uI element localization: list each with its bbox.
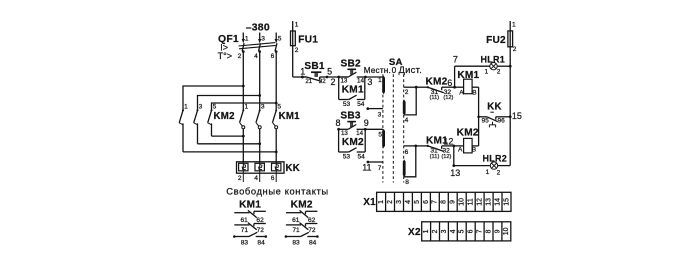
svg-text:2: 2 [238, 53, 242, 60]
svg-text:KK: KK [286, 163, 301, 174]
wire node 11 SA pin 7 stub [362, 161, 383, 173]
contact KM1 31-32 interlock [416, 135, 454, 160]
label Svobodnye kontakty [226, 186, 328, 197]
svg-text:A: A [459, 89, 464, 96]
svg-text:12: 12 [443, 136, 453, 146]
coil KM2 [454, 128, 479, 154]
wire feed KM2 pole 2 [198, 96, 260, 111]
selector switch SA [364, 57, 422, 183]
svg-text:2: 2 [330, 77, 335, 87]
lamp HLR2 [454, 154, 510, 177]
svg-text:14: 14 [357, 78, 364, 85]
svg-text:15: 15 [503, 198, 510, 206]
svg-text:6: 6 [271, 175, 275, 182]
svg-text:96: 96 [498, 118, 506, 125]
svg-text:(12): (12) [443, 95, 453, 101]
svg-text:71: 71 [241, 227, 249, 234]
wire feed KM2 pole 1 [183, 86, 243, 110]
svg-text:9: 9 [450, 200, 457, 204]
svg-text:2: 2 [238, 175, 242, 182]
pushbutton SB3 [335, 111, 368, 137]
svg-text:(11): (11) [429, 95, 439, 101]
svg-text:3: 3 [261, 35, 265, 42]
svg-text:1: 1 [486, 169, 490, 176]
svg-text:1: 1 [484, 69, 488, 76]
terminal block X2 [408, 222, 511, 241]
svg-text:11: 11 [468, 198, 475, 205]
svg-text:5: 5 [459, 229, 466, 233]
svg-text:1: 1 [244, 103, 248, 110]
svg-text:2: 2 [387, 200, 394, 204]
wire phase A from QF1 to KM1 pole 1 [242, 52, 245, 110]
contactor KM1 main contacts [240, 103, 301, 161]
svg-text:4: 4 [450, 229, 457, 233]
svg-text:–380: –380 [246, 23, 270, 34]
svg-text:4: 4 [254, 175, 258, 182]
wire node 3 to SA pin 1 [365, 77, 383, 87]
wire node 13 [450, 146, 460, 178]
svg-text:2: 2 [513, 46, 517, 53]
svg-text:Свободные контакты: Свободные контакты [226, 186, 328, 197]
svg-text:13: 13 [486, 198, 493, 206]
wire node 9 to SA pin 5 [365, 129, 383, 138]
wire merge KM2 pole2 to KM1 pole2 [198, 142, 262, 145]
svg-text:HLR2: HLR2 [483, 154, 508, 164]
svg-text:83: 83 [292, 239, 300, 246]
svg-text:1: 1 [423, 229, 430, 233]
label -380 supply [246, 23, 270, 34]
svg-text:53: 53 [343, 101, 351, 108]
svg-text:1: 1 [512, 22, 516, 29]
svg-text:1: 1 [295, 22, 299, 29]
svg-text:FU1: FU1 [298, 34, 318, 45]
svg-text:12: 12 [477, 198, 484, 206]
svg-text:SB2: SB2 [341, 58, 362, 69]
svg-text:3: 3 [441, 229, 448, 233]
svg-text:7: 7 [432, 200, 439, 204]
svg-text:Местн.: Местн. [364, 66, 391, 75]
svg-text:5: 5 [327, 66, 332, 76]
svg-text:2: 2 [432, 229, 439, 233]
wire SA pin 3 stub [366, 107, 383, 118]
wire merge KM2 pole3 to KM1 pole1 [212, 135, 245, 138]
svg-text:X1: X1 [363, 197, 376, 208]
thermal relay KK heaters [237, 162, 301, 174]
svg-text:21: 21 [305, 78, 312, 85]
svg-text:1: 1 [378, 200, 385, 204]
svg-text:6: 6 [423, 200, 430, 204]
svg-text:2: 2 [497, 170, 501, 177]
svg-text:54: 54 [358, 153, 366, 160]
svg-text:FU2: FU2 [486, 35, 506, 46]
svg-text:HLR1: HLR1 [481, 54, 506, 64]
svg-text:2: 2 [497, 69, 501, 76]
svg-text:0: 0 [392, 66, 397, 75]
svg-text:6: 6 [405, 149, 409, 156]
svg-text:10: 10 [503, 227, 510, 235]
svg-text:83: 83 [241, 239, 249, 246]
svg-text:KM2: KM2 [425, 77, 447, 88]
wire SA pins 2-4 to riser [404, 86, 418, 124]
svg-text:6: 6 [468, 229, 475, 233]
svg-text:A: A [458, 146, 463, 153]
wire node 15 right rail [509, 50, 522, 166]
svg-text:62: 62 [308, 217, 316, 224]
svg-text:KM1: KM1 [239, 199, 261, 210]
svg-text:61: 61 [241, 217, 249, 224]
svg-text:KM2: KM2 [291, 199, 313, 210]
svg-text:5: 5 [414, 200, 421, 204]
svg-text:22: 22 [319, 78, 326, 85]
svg-text:KM1: KM1 [457, 70, 479, 81]
wire coil KM1 B to KK [478, 87, 480, 117]
terminal block X1 [363, 192, 511, 211]
svg-text:53: 53 [343, 153, 351, 160]
wire node 5 / node 2 [327, 66, 348, 86]
svg-text:KM1: KM1 [279, 111, 301, 122]
svg-text:72: 72 [308, 227, 316, 234]
thermal contact KK 95-96 [477, 101, 510, 127]
svg-text:4: 4 [405, 200, 412, 204]
svg-text:15: 15 [512, 111, 522, 121]
svg-text:(11): (11) [430, 154, 440, 160]
svg-text:5: 5 [213, 103, 217, 110]
wire feed KM2 pole 3 [212, 103, 277, 110]
svg-text:9: 9 [364, 118, 369, 128]
svg-text:8: 8 [441, 200, 448, 204]
svg-text:5: 5 [277, 103, 281, 110]
svg-text:10: 10 [459, 198, 466, 206]
svg-text:1: 1 [245, 35, 249, 42]
svg-text:KM1: KM1 [342, 85, 364, 96]
svg-text:14: 14 [495, 198, 502, 206]
contact KM2 31-32 interlock [416, 77, 454, 102]
svg-text:84: 84 [257, 239, 265, 246]
svg-text:B: B [472, 89, 477, 96]
svg-text:1: 1 [184, 103, 188, 110]
svg-text:2: 2 [295, 47, 299, 54]
svg-text:54: 54 [357, 101, 365, 108]
svg-text:71: 71 [292, 227, 300, 234]
wire phase B from QF1 to KM1 pole 2 [258, 52, 261, 110]
free contacts KM1 [233, 199, 267, 246]
svg-text:61: 61 [292, 217, 300, 224]
svg-text:1: 1 [378, 77, 382, 84]
free contacts KM2 [285, 199, 319, 246]
KK pins 2 4 6 and tail wires [238, 162, 276, 182]
svg-text:84: 84 [309, 239, 317, 246]
svg-text:3: 3 [367, 77, 372, 87]
svg-text:8: 8 [405, 179, 409, 186]
svg-text:4: 4 [254, 53, 258, 60]
svg-text:3: 3 [261, 103, 265, 110]
svg-text:KM2: KM2 [457, 128, 479, 139]
pushbutton SB1 [301, 61, 328, 85]
svg-text:6: 6 [271, 53, 275, 60]
svg-text:8: 8 [485, 229, 492, 233]
pushbutton SB2 [339, 58, 367, 84]
svg-text:SB1: SB1 [304, 61, 325, 72]
svg-text:13: 13 [450, 168, 460, 178]
svg-text:5: 5 [378, 131, 382, 138]
wire node 6 node 7 [447, 54, 458, 88]
svg-text:72: 72 [257, 227, 265, 234]
svg-text:7: 7 [453, 54, 458, 64]
svg-text:Дист.: Дист. [398, 64, 422, 75]
contact KM2 53-54 self-hold [339, 129, 366, 160]
svg-text:13: 13 [340, 78, 347, 85]
svg-text:62: 62 [256, 217, 264, 224]
svg-text:5: 5 [278, 35, 282, 42]
svg-text:KK: KK [487, 101, 502, 112]
wire node 1 [293, 67, 307, 79]
svg-text:95: 95 [482, 118, 490, 125]
svg-text:KM2: KM2 [214, 111, 235, 122]
svg-text:7: 7 [477, 229, 484, 233]
wire phase C from QF1 to KM1 pole 3 [275, 52, 278, 110]
svg-text:B: B [472, 146, 477, 153]
wire node 12 [443, 136, 455, 147]
coil KM1 [455, 70, 480, 97]
wire merge KM2 pole1 to KM1 pole3 [183, 151, 278, 154]
svg-text:2: 2 [405, 89, 409, 96]
svg-text:7: 7 [378, 165, 382, 172]
svg-text:3: 3 [396, 200, 403, 204]
svg-text:9: 9 [494, 229, 501, 233]
circuit breaker QF1 [218, 33, 282, 61]
svg-text:3: 3 [378, 112, 382, 119]
svg-text:8: 8 [335, 118, 340, 128]
svg-text:(12): (12) [441, 154, 451, 160]
contactor KM2 main contacts [179, 103, 235, 151]
wire coil KM2 B riser to KK [478, 117, 480, 146]
svg-text:4: 4 [405, 117, 409, 124]
svg-text:KM2: KM2 [342, 137, 364, 148]
svg-text:3: 3 [199, 103, 203, 110]
wire SA pins 6-8 to riser [404, 145, 417, 186]
svg-text:SB3: SB3 [340, 111, 361, 122]
svg-text:X2: X2 [408, 227, 421, 238]
fuse FU1 [291, 21, 319, 77]
contact KM1 53-54 self-hold [339, 77, 365, 108]
svg-text:6: 6 [447, 78, 452, 88]
lamp HLR1 [455, 54, 511, 75]
fuse FU2 [486, 21, 517, 53]
svg-text:T°>: T°> [218, 51, 232, 61]
svg-text:11: 11 [362, 163, 371, 173]
